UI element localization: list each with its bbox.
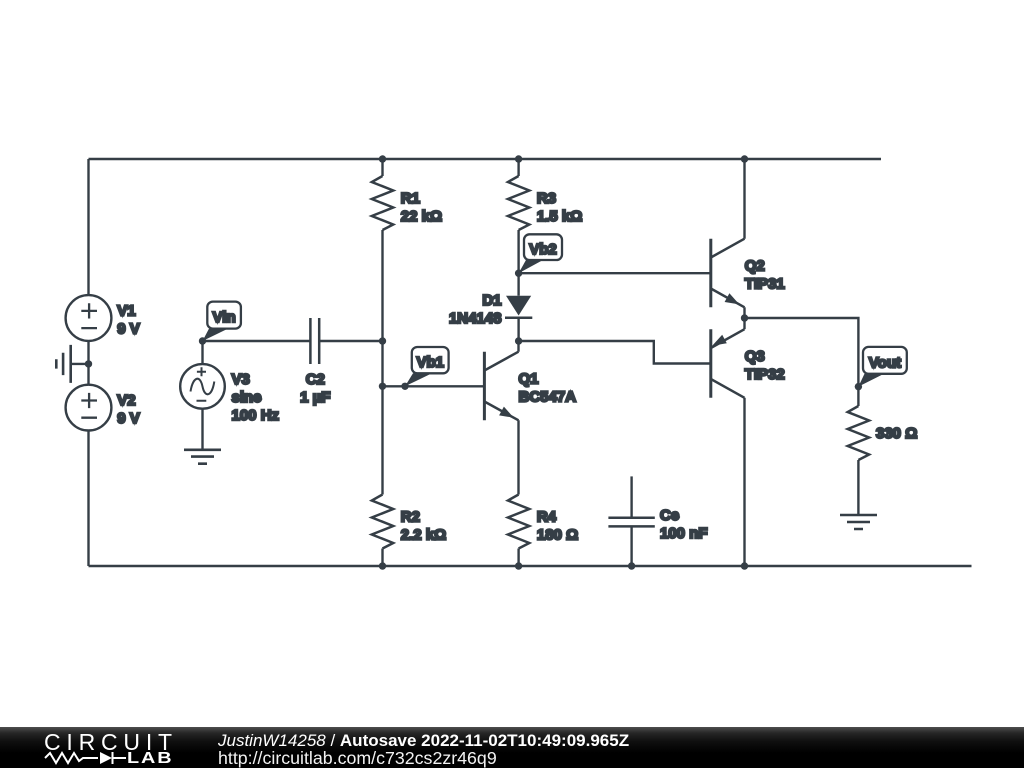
wire Q2 emitter to output node	[743, 307, 745, 318]
resistor R2	[372, 495, 446, 549]
svg-text:330 Ω: 330 Ω	[876, 425, 917, 442]
svg-text:BC547A: BC547A	[519, 389, 577, 406]
net label Vb1	[405, 347, 449, 386]
voltage source V1	[66, 295, 140, 341]
svg-text:TIP32: TIP32	[745, 366, 785, 383]
wire C2 to divider node	[319, 340, 382, 342]
node Vb1	[401, 383, 408, 390]
svg-text:2.2 kΩ: 2.2 kΩ	[401, 527, 446, 544]
node C2/R1 junction	[379, 155, 386, 162]
transistor Q1	[484, 352, 576, 421]
resistor R1	[372, 176, 442, 230]
svg-text:R4: R4	[537, 509, 557, 526]
node Vout	[855, 383, 862, 390]
svg-text:1N4148: 1N4148	[449, 310, 502, 327]
node Q2 collector top rail	[741, 155, 748, 162]
node junction V1-V2-ground	[85, 360, 92, 367]
wire output to Vout column	[745, 318, 859, 387]
svg-text:Ce: Ce	[660, 507, 679, 524]
wire R1 top lead	[381, 159, 383, 176]
svg-text:V1: V1	[117, 302, 135, 319]
net label Vin	[203, 302, 241, 341]
ground (below R330)	[840, 515, 877, 529]
wire R2 bottom lead	[381, 549, 383, 567]
svg-text:Vb1: Vb1	[416, 354, 444, 371]
wire Q2 collector to top rail	[743, 159, 745, 239]
wire V3 to ground	[201, 409, 203, 450]
svg-text:9 V: 9 V	[117, 410, 140, 427]
svg-text:V2: V2	[117, 392, 135, 409]
ground (below V3)	[184, 450, 221, 464]
capacitor Ce	[608, 476, 707, 566]
wire Vb2 to Q2 base	[519, 272, 711, 274]
node Vin	[199, 337, 206, 344]
svg-text:V3: V3	[232, 371, 250, 388]
logo resistor squiggle	[45, 753, 98, 763]
svg-text:C2: C2	[306, 371, 325, 388]
wire divider column	[381, 341, 383, 495]
wire Q3 emitter to output node	[743, 318, 745, 329]
wire Q3 collector to bottom rail	[743, 398, 745, 566]
wire V1 to V2	[87, 341, 89, 385]
svg-text:1.5 kΩ: 1.5 kΩ	[537, 208, 582, 225]
transistor Q2	[711, 239, 785, 308]
svg-text:R2: R2	[401, 509, 420, 526]
wire left rail upper	[87, 159, 89, 295]
svg-text:D1: D1	[482, 292, 501, 309]
ground (sideways, left)	[56, 345, 88, 383]
net label Vb2	[519, 234, 562, 273]
node Q3 collector bottom rail	[741, 562, 748, 569]
svg-text:Q3: Q3	[745, 348, 765, 365]
wire top rail	[89, 158, 882, 160]
wire R4 bottom lead	[517, 549, 519, 567]
svg-text:180 Ω: 180 Ω	[537, 527, 578, 544]
svg-text:TIP31: TIP31	[745, 276, 785, 293]
svg-text:22 kΩ: 22 kΩ	[401, 208, 442, 225]
transistor Q3	[711, 329, 785, 398]
node divider base junction	[379, 383, 386, 390]
resistor R3	[508, 176, 582, 230]
svg-text:100 nF: 100 nF	[660, 525, 708, 542]
svg-text:Q1: Q1	[519, 371, 539, 388]
wire R3 top lead	[517, 159, 519, 176]
svg-text:100 Hz: 100 Hz	[232, 407, 280, 424]
svg-text:sine: sine	[232, 389, 262, 406]
logo diode	[100, 752, 112, 764]
wire Vin to C2	[203, 340, 311, 342]
resistor 330	[848, 406, 918, 460]
node output junction	[741, 314, 748, 321]
svg-text:R3: R3	[537, 190, 556, 207]
svg-text:Q2: Q2	[745, 258, 765, 275]
resistor R4	[508, 495, 578, 549]
node D1 bottom / Q1 collector	[515, 337, 522, 344]
wire base Q1	[383, 385, 485, 387]
svg-text:Vout: Vout	[869, 354, 901, 371]
wire R3 to Vb2 node	[517, 230, 519, 273]
net label Vout	[858, 347, 906, 387]
node Ce bottom rail	[628, 562, 635, 569]
svg-text:Vb2: Vb2	[529, 241, 557, 258]
capacitor C2	[300, 318, 330, 406]
node Vb2	[515, 270, 522, 277]
diode D1	[449, 273, 532, 341]
node R2 bottom rail	[379, 562, 386, 569]
wire left rail lower	[87, 430, 89, 566]
node R4 bottom rail	[515, 562, 522, 569]
svg-text:Vin: Vin	[213, 309, 236, 326]
wire node to Q3 base (step)	[519, 341, 711, 364]
voltage source V2	[66, 385, 140, 431]
wire R330 to ground	[857, 460, 859, 515]
wire R1 bottom lead	[381, 230, 383, 341]
svg-text:1 µF: 1 µF	[300, 389, 330, 406]
wire Q1 emitter down	[517, 420, 519, 494]
node R3 top rail	[515, 155, 522, 162]
wire Q1 collector up	[517, 341, 519, 352]
svg-text:9 V: 9 V	[117, 321, 140, 338]
wire Vout to R330	[857, 387, 859, 406]
voltage source V3	[180, 341, 279, 424]
svg-text:R1: R1	[401, 190, 420, 207]
wire bottom rail	[89, 565, 972, 567]
